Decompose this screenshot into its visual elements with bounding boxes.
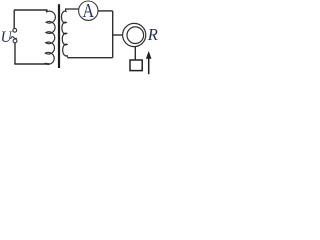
svg-text:U: U bbox=[1, 29, 14, 46]
AC tilde mark bbox=[11, 37, 17, 39]
up arrow head bbox=[146, 51, 152, 59]
wire: bottom horizontal back to secondary bbox=[68, 57, 113, 59]
wire: left vertical lower segment bbox=[14, 43, 16, 64]
wire: R bottom down to box bbox=[134, 47, 136, 61]
wire: secondary top to ammeter bbox=[65, 8, 79, 10]
secondary coil (4 turns, bulging left) bbox=[61, 9, 68, 58]
wire: top-left horizontal from source to primary coil bbox=[14, 9, 48, 11]
component R outer circle bbox=[123, 23, 146, 46]
wire: ammeter to top-right corner bbox=[98, 10, 113, 12]
terminal upper circle bbox=[13, 28, 17, 32]
wire: right vertical down bbox=[112, 11, 114, 58]
box below R bbox=[130, 60, 142, 71]
wire: bottom-left horizontal to primary coil bbox=[14, 63, 49, 65]
wire: branch to R bbox=[113, 34, 123, 36]
terminal lower circle bbox=[13, 39, 17, 43]
component R inner circle bbox=[127, 27, 144, 44]
wire: left vertical upper segment bbox=[13, 10, 15, 28]
primary coil (5 turns, bulging right) bbox=[45, 10, 55, 64]
transformer core bbox=[58, 4, 60, 68]
ammeter circle bbox=[79, 1, 98, 20]
svg-text:R: R bbox=[147, 25, 158, 44]
svg-text:A: A bbox=[82, 0, 94, 22]
up arrow shaft bbox=[148, 57, 150, 75]
